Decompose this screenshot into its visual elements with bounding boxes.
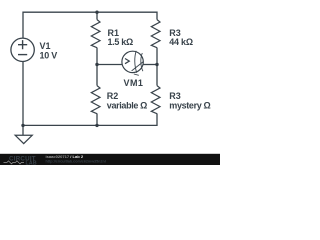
node middle left junction [95,63,98,66]
wire R1 top lead [96,12,98,19]
resistor R3 mystery [151,86,160,114]
resistor R3 44k [151,20,160,48]
wire bottom rail [23,114,157,126]
voltmeter VM1 [122,51,143,76]
svg-text:1.5 kΩ: 1.5 kΩ [108,37,134,47]
wire VM1 right to R3 column [143,64,157,66]
wire R3 bottom lead [156,48,158,86]
watermark text [46,154,106,163]
label R3 mystery value [169,91,210,110]
svg-text:mystery Ω: mystery Ω [169,100,210,110]
svg-text:LAB: LAB [26,160,37,165]
wire left column bottom [22,62,24,126]
wire top rail [23,12,157,38]
label R1 value [108,28,134,47]
svg-text:10 V: 10 V [40,50,58,60]
wire R1 bottom to middle node [96,48,98,86]
wire R2 bottom lead [96,114,98,126]
wire middle node to VM1 left [97,64,122,66]
svg-text:44 kΩ: 44 kΩ [169,37,193,47]
label VM1 [124,78,144,88]
svg-text:VM1: VM1 [124,78,144,88]
voltage source V1 [11,38,34,61]
label V1 value [40,41,58,60]
resistor R1 [91,20,100,48]
label R2 value [107,91,147,110]
resistor R2 [91,86,100,114]
node bottom left junction [21,124,24,127]
node top junction [95,11,98,14]
svg-text:http://circuitlab.com/c62mw35n: http://circuitlab.com/c62mw35n2nl [46,159,106,163]
watermark CircuitLab logo [4,155,37,166]
node middle right junction [155,63,158,66]
node bottom mid junction [95,124,98,127]
svg-text:variable Ω: variable Ω [107,100,147,110]
label R3 44k value [169,28,193,47]
ground [15,125,32,143]
watermark bar [0,154,220,165]
